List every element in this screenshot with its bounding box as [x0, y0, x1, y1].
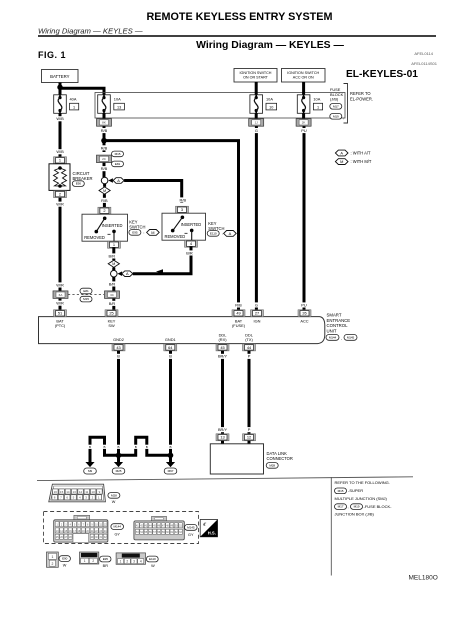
connector 1J under fuse 10	[249, 113, 264, 126]
svg-text:B/R: B/R	[109, 281, 116, 286]
svg-text:BR: BR	[103, 564, 109, 568]
svg-text:G: G	[255, 128, 258, 133]
svg-text:B: B	[89, 445, 91, 449]
key switch 1 pin 1	[108, 241, 121, 248]
svg-text:1: 1	[51, 555, 53, 559]
wire R/B to key switch 1	[100, 194, 109, 207]
svg-text:10: 10	[91, 490, 95, 494]
fuse 13 rating	[114, 96, 125, 110]
key switch 2 label	[208, 221, 224, 231]
page title	[147, 11, 333, 23]
svg-text:49: 49	[236, 311, 240, 316]
data link connector box	[210, 444, 263, 474]
svg-text:(PTC): (PTC)	[55, 323, 66, 328]
wire R/B junction to unit pin 49	[104, 141, 243, 311]
svg-text:GND2: GND2	[113, 337, 124, 342]
svg-text:REMOTE KEYLESS ENTRY SYSTEM: REMOTE KEYLESS ENTRY SYSTEM	[147, 11, 333, 23]
fuse 10 rating	[266, 96, 277, 110]
svg-text:G: G	[255, 302, 258, 307]
fuse 40A rating	[70, 96, 79, 110]
svg-text:,: ,	[341, 336, 342, 340]
code AFEL0114S01	[411, 61, 437, 66]
svg-text:R/B: R/B	[101, 198, 108, 203]
svg-text:M145: M145	[187, 526, 195, 530]
fuse 10 (10A)	[250, 95, 263, 114]
svg-text:B: B	[146, 445, 148, 449]
battery	[42, 70, 79, 83]
svg-text:27: 27	[255, 311, 259, 316]
svg-text:M: M	[112, 262, 115, 266]
M145 oval face	[185, 525, 198, 538]
svg-text:M28: M28	[111, 494, 117, 498]
ground jumper left	[88, 437, 118, 459]
svg-text:E95: E95	[132, 231, 138, 235]
circuit breaker label	[73, 171, 93, 181]
wire B gnd1 down	[168, 351, 172, 456]
unit connector M145 face	[134, 516, 184, 540]
key switch E95	[82, 214, 128, 241]
wire A/T branch to key switch 2	[124, 181, 187, 204]
connector M19	[330, 114, 344, 121]
unit gnd1 label	[165, 337, 176, 342]
wire ignition1 to fuse 10	[255, 82, 258, 95]
svg-text:-SUPER: -SUPER	[348, 488, 363, 493]
svg-text:M15: M15	[338, 489, 344, 493]
svg-text:M67: M67	[168, 469, 174, 473]
svg-text:A: A	[117, 178, 120, 183]
svg-text:2K: 2K	[302, 121, 306, 125]
svg-text:13: 13	[220, 435, 224, 440]
svg-text:REMOVED: REMOVED	[165, 234, 186, 239]
diamond M (M/T branch)	[99, 184, 110, 194]
dlc face M28 oval	[108, 493, 120, 505]
footer note M15	[335, 488, 364, 494]
svg-text:PU: PU	[301, 128, 307, 133]
connector E110 face	[116, 553, 145, 564]
svg-text:M144: M144	[329, 336, 337, 340]
smart entrance control unit box	[39, 317, 325, 344]
key switch 2 pin 3	[176, 206, 189, 213]
dlc pin 12	[243, 434, 256, 444]
connector 2K under fuse 1	[296, 113, 311, 126]
svg-text:8K: 8K	[102, 121, 106, 125]
E110 oval face	[146, 556, 158, 568]
svg-text::: :	[222, 232, 223, 236]
svg-text:EL-POWER.: EL-POWER.	[350, 96, 373, 101]
svg-text:B: B	[169, 354, 172, 359]
svg-text:INSERTED: INSERTED	[102, 223, 123, 228]
fuse 40A (fusible link)	[54, 95, 67, 114]
unit pin 43	[112, 344, 125, 351]
svg-text:M: M	[103, 189, 106, 193]
unit pin 27	[251, 310, 264, 324]
svg-text:IGNITION SWITCH: IGNITION SWITCH	[240, 71, 272, 75]
svg-text:M: M	[151, 230, 154, 235]
svg-text:E90: E90	[62, 557, 68, 561]
inline connector 3C	[105, 291, 120, 299]
svg-text:W/R: W/R	[56, 202, 64, 207]
key switch 1 pin 2	[98, 207, 111, 214]
data link connector label	[267, 451, 293, 461]
unit connector M144 face	[54, 515, 108, 542]
inline connector 2C	[97, 155, 112, 163]
H.S. mark	[200, 520, 217, 537]
svg-text:E95: E95	[103, 557, 109, 561]
svg-text:(RX): (RX)	[219, 337, 228, 342]
unit pin 44	[243, 344, 256, 351]
merge node below key switch 1	[111, 267, 118, 277]
svg-text:GY: GY	[188, 533, 194, 537]
svg-text:E81: E81	[115, 162, 121, 166]
svg-text:INSERTED: INSERTED	[181, 222, 202, 227]
svg-text:(FUSE): (FUSE)	[232, 323, 246, 328]
svg-text:2: 2	[59, 192, 61, 197]
svg-text:25: 25	[109, 311, 113, 316]
svg-text:2: 2	[103, 208, 105, 213]
svg-text:FIG. 1: FIG. 1	[38, 50, 66, 60]
svg-text:1: 1	[84, 559, 86, 563]
svg-text:B: B	[135, 445, 137, 449]
connector M15 oval	[80, 296, 92, 302]
svg-text:M9: M9	[88, 469, 92, 473]
svg-text:10: 10	[269, 105, 273, 109]
unit pin 49	[232, 310, 246, 328]
connector E90 oval	[72, 181, 84, 187]
wire B/R key switch 1 down	[107, 247, 116, 260]
refer bracket	[344, 84, 348, 124]
svg-text:,: ,	[343, 116, 344, 120]
diamond M below key switch 1	[108, 260, 119, 267]
svg-text:W/B: W/B	[56, 149, 64, 154]
unit pin 51	[54, 310, 67, 328]
fuse 1 (10A)	[297, 95, 310, 114]
hexagon A key switch 2	[224, 231, 237, 237]
svg-text:M144: M144	[114, 525, 122, 529]
unit pin 45	[216, 344, 229, 351]
svg-text:51: 51	[58, 311, 62, 316]
wire PU fuse1 to unit pin 26	[301, 126, 308, 310]
svg-text:CONNECTOR: CONNECTOR	[267, 456, 293, 461]
svg-text:M145: M145	[347, 336, 355, 340]
wire ignition2 to fuse 1	[302, 82, 305, 95]
wire B/R merge to unit pin 25	[107, 277, 116, 310]
svg-text:B: B	[117, 445, 119, 449]
arrow into merge node	[118, 271, 123, 276]
connector M145 oval	[344, 335, 357, 341]
svg-text:15: 15	[60, 490, 64, 494]
svg-text:26: 26	[302, 311, 306, 316]
svg-text:B: B	[117, 354, 120, 359]
connector M144 oval	[326, 335, 342, 341]
connector E95 face	[80, 552, 99, 564]
svg-text:10A: 10A	[313, 96, 320, 101]
svg-text:UNIT: UNIT	[327, 329, 337, 334]
svg-text:43: 43	[116, 345, 120, 350]
svg-text:BATTERY: BATTERY	[50, 74, 70, 79]
svg-text:JUNCTION BOX (J/B): JUNCTION BOX (J/B)	[335, 512, 375, 517]
ignition switch ON or START	[234, 69, 277, 83]
svg-text:B: B	[169, 445, 171, 449]
svg-text:1: 1	[73, 105, 75, 109]
svg-text:E81: E81	[83, 289, 89, 293]
svg-text:1: 1	[113, 242, 115, 247]
wire G fuse10 to unit pin 27	[254, 126, 258, 310]
svg-text:GND1: GND1	[165, 337, 176, 342]
connector M17	[330, 104, 342, 110]
svg-text:BR/Y: BR/Y	[218, 354, 227, 359]
svg-text:SW: SW	[108, 323, 115, 328]
svg-text:(J/B): (J/B)	[330, 96, 339, 101]
svg-text:MULTIPLE JUNCTION (SMJ): MULTIPLE JUNCTION (SMJ)	[335, 496, 388, 501]
code AFEL0114	[414, 51, 433, 56]
svg-text:: WITH A/T: : WITH A/T	[351, 151, 372, 156]
ground jumper right	[119, 437, 171, 455]
connector E90 face	[47, 552, 59, 567]
svg-text:P: P	[248, 427, 251, 432]
svg-text:6A: 6A	[59, 293, 63, 297]
flow arrow on B/R wire	[156, 269, 163, 274]
detail dashed box	[44, 512, 199, 544]
svg-text:P: P	[248, 354, 251, 359]
footer note M17 M19	[335, 504, 393, 510]
unit gnd2 label	[113, 337, 124, 342]
svg-text:ON OR START: ON OR START	[243, 76, 269, 80]
svg-text:11: 11	[85, 490, 88, 494]
svg-text:W/B: W/B	[56, 116, 64, 121]
connector M28 oval (dlc)	[266, 463, 278, 469]
svg-text:M15: M15	[115, 152, 121, 156]
fuse 13 (10A)	[98, 95, 111, 114]
E95 oval face	[100, 556, 111, 568]
svg-text:12: 12	[79, 490, 83, 494]
option split node	[101, 177, 108, 184]
svg-text:ACC OR ON: ACC OR ON	[293, 76, 314, 80]
plate code MEL180O	[409, 574, 438, 581]
header rule	[38, 35, 436, 37]
svg-text:1: 1	[59, 158, 61, 163]
refer to EL-POWER note	[350, 91, 373, 101]
unit pin 64	[164, 344, 177, 351]
connector E81 oval	[80, 288, 92, 294]
svg-text:SMART: SMART	[327, 312, 342, 317]
svg-text:A: A	[126, 271, 129, 276]
svg-text:14: 14	[66, 490, 70, 494]
svg-text:M19: M19	[333, 114, 339, 118]
dlc pin 13	[216, 434, 229, 444]
fuse block label	[330, 87, 344, 101]
ground M9	[84, 460, 97, 475]
svg-text:IGNITION SWITCH: IGNITION SWITCH	[287, 71, 319, 75]
svg-text:10A: 10A	[266, 96, 273, 101]
svg-text:M19: M19	[354, 505, 360, 509]
svg-text:GY: GY	[114, 532, 120, 536]
fuse 1 rating	[313, 96, 322, 110]
svg-text:W: W	[63, 563, 67, 567]
svg-text:R/B: R/B	[101, 145, 108, 150]
wire BR/Y to DLC pin 13	[217, 351, 229, 434]
wire W/B fuse40 to circuit breaker	[55, 113, 64, 157]
svg-text:REMOVED: REMOVED	[84, 235, 105, 240]
svg-text:B/R: B/R	[109, 253, 116, 258]
M144 oval face	[111, 524, 124, 537]
svg-text:1: 1	[120, 560, 122, 564]
key switch 1 label	[129, 220, 145, 230]
key switch 2 pin 4	[185, 240, 198, 247]
svg-text:1: 1	[317, 105, 319, 109]
svg-text:M17: M17	[338, 505, 344, 509]
svg-text:E90: E90	[76, 182, 82, 186]
svg-text:(TX): (TX)	[245, 337, 253, 342]
svg-text:2: 2	[92, 559, 94, 563]
footer note	[335, 480, 390, 485]
svg-text:ENTRANCE: ENTRANCE	[327, 318, 351, 323]
unit pin 26	[298, 310, 311, 324]
svg-text:A: A	[229, 231, 232, 236]
svg-text:45: 45	[220, 345, 224, 350]
svg-text:R/B: R/B	[180, 197, 187, 202]
inline connector 6A	[53, 291, 68, 299]
svg-text:10A: 10A	[114, 96, 121, 101]
wire R/B to option node	[99, 163, 108, 178]
svg-text:B: B	[103, 445, 105, 449]
svg-text:Wiring Diagram — KEYLES —: Wiring Diagram — KEYLES —	[38, 26, 143, 35]
footer divider	[330, 477, 332, 576]
svg-text:R/B: R/B	[101, 166, 108, 171]
svg-text:ACC: ACC	[300, 319, 308, 324]
unit name	[327, 312, 351, 333]
fuse block (J/B) outline	[95, 93, 345, 119]
wire B/R key switch 2 to merge	[133, 246, 194, 274]
svg-text:12: 12	[247, 435, 251, 440]
svg-text:W: W	[112, 500, 116, 504]
svg-text:M15: M15	[83, 297, 89, 301]
circuit breaker E90	[49, 164, 70, 191]
connector E110 oval	[207, 231, 223, 237]
legend with M/T	[335, 159, 372, 165]
junction node R/B	[101, 138, 107, 144]
svg-text:E110: E110	[210, 232, 217, 236]
svg-text:3: 3	[133, 560, 135, 564]
svg-text:W/R: W/R	[56, 301, 64, 306]
svg-text:B/R: B/R	[186, 250, 193, 255]
svg-text::: :	[143, 231, 144, 235]
svg-text:AFEL0114S01: AFEL0114S01	[411, 61, 437, 66]
smj dashed link	[68, 294, 104, 296]
wire B gnd2 down	[116, 351, 120, 456]
svg-text:H.S.: H.S.	[208, 531, 216, 536]
dlc face connector M28	[49, 484, 106, 502]
ignition switch ACC or ON	[282, 69, 326, 83]
junction node gnd1	[168, 453, 174, 459]
junction node gnd2	[116, 453, 122, 459]
svg-text:MEL180O: MEL180O	[409, 574, 438, 581]
svg-text:W: W	[151, 564, 155, 568]
connector E81 oval (mid)	[112, 161, 124, 167]
svg-text:1J: 1J	[255, 121, 259, 125]
circuit breaker pin 2	[54, 191, 67, 198]
wire P to DLC pin 12	[247, 351, 251, 434]
hexagon A (A/T branch)	[113, 178, 124, 184]
svg-text:BREAKER: BREAKER	[73, 176, 93, 181]
svg-text:,: ,	[348, 504, 349, 509]
figure label FIG. 1	[38, 50, 66, 60]
key switch E110	[162, 213, 206, 240]
svg-text:BR/Y: BR/Y	[218, 427, 227, 432]
arrow into node (A/T)	[108, 178, 113, 183]
svg-text:M25: M25	[116, 469, 122, 473]
svg-text:2: 2	[51, 562, 53, 566]
svg-text:EL-KEYLES-01: EL-KEYLES-01	[346, 69, 418, 80]
hexagon A below key switch 2	[122, 271, 133, 277]
svg-text:IGN: IGN	[254, 319, 261, 324]
svg-text:M: M	[340, 159, 343, 164]
footer note jb	[335, 512, 375, 517]
svg-text:16: 16	[54, 490, 58, 494]
svg-text:-FUSE BLOCK-: -FUSE BLOCK-	[364, 504, 393, 509]
diagram id EL-KEYLES-01	[346, 69, 418, 80]
footer rule	[37, 477, 413, 481]
svg-text:M17: M17	[333, 104, 339, 108]
svg-text:3: 3	[181, 207, 183, 212]
svg-text:2: 2	[126, 560, 128, 564]
svg-text:PU: PU	[301, 302, 307, 307]
svg-text:SWITCH: SWITCH	[129, 225, 145, 230]
wire W/R circuit breaker to unit pin 51	[55, 198, 64, 311]
unit ddl rx label	[219, 332, 228, 342]
unit ddl tx label	[245, 332, 254, 342]
connector M15 oval (mid)	[112, 151, 124, 157]
svg-text:13: 13	[73, 490, 77, 494]
svg-text:40A: 40A	[70, 96, 77, 101]
wire battery bus to fuse 13	[61, 88, 104, 95]
svg-text:CONTROL: CONTROL	[327, 323, 349, 328]
svg-text:R/B: R/B	[101, 128, 108, 133]
footer note smj	[335, 496, 388, 501]
svg-text:Wiring Diagram — KEYLES —: Wiring Diagram — KEYLES —	[196, 40, 344, 51]
ground M67	[164, 455, 177, 474]
wire battery to node	[59, 83, 62, 95]
legend with A/T	[335, 150, 371, 156]
svg-text:13: 13	[117, 105, 121, 109]
unit pin 25	[105, 310, 118, 328]
wire R/B to junction	[99, 126, 108, 152]
svg-text:REFER TO THE FOLLOWING.: REFER TO THE FOLLOWING.	[335, 480, 390, 485]
connector E95 oval	[129, 230, 145, 236]
junction node battery feed	[57, 85, 62, 90]
svg-text:W/R: W/R	[56, 282, 64, 287]
running head italic	[38, 26, 143, 35]
E90 oval face	[59, 556, 70, 568]
hexagon M key switch 1	[147, 230, 160, 236]
svg-text:B/R: B/R	[109, 301, 116, 306]
connector 8K under fuse 13	[97, 113, 112, 126]
circuit breaker pin 1	[54, 157, 67, 164]
svg-text:E110: E110	[149, 557, 156, 561]
svg-text:M28: M28	[269, 464, 275, 468]
svg-text:A: A	[340, 150, 343, 155]
svg-text:R/B: R/B	[235, 302, 242, 307]
svg-text:: WITH M/T: : WITH M/T	[351, 159, 372, 164]
svg-text:4: 4	[140, 560, 142, 564]
section heading	[196, 40, 344, 51]
svg-text:AFEL0114: AFEL0114	[414, 51, 433, 56]
ground M25	[112, 455, 125, 474]
